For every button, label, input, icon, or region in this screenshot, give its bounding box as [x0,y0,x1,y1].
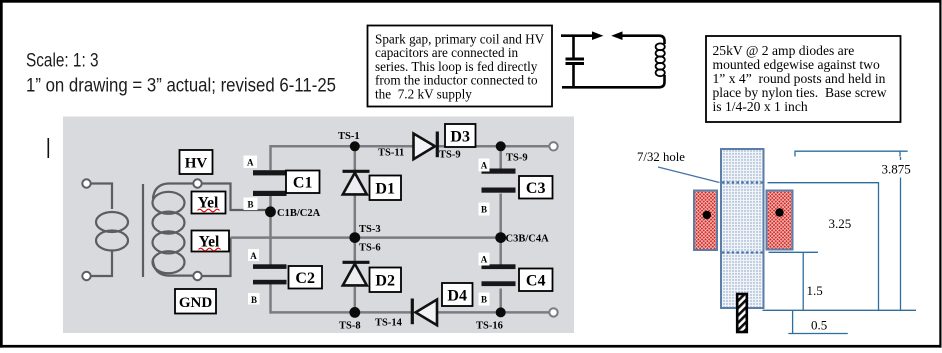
secondary winding loop 2 [153,212,185,234]
node TS-8 [349,307,360,318]
dimension 3.25 line [768,183,879,311]
spark gap electrode arrow right [611,31,622,40]
svg-text:1” x 4” round posts and held: 1” x 4” round posts and held in [713,71,886,86]
label box C2 [289,266,323,289]
top rail wire right of D3 [439,145,554,148]
svg-text:D2: D2 [375,273,395,290]
svg-text:C3B/C4A: C3B/C4A [506,234,550,245]
label box C1 [286,171,320,194]
svg-text:TS-1: TS-1 [338,131,360,142]
page frame border [0,0,942,3]
core line [142,184,144,277]
nylon tie block right [767,191,793,250]
capacitor C4 plates [482,264,516,269]
HV label box [180,150,213,174]
schematic gray panel [63,117,574,334]
label A of C2 [248,249,259,261]
svg-text:TS-6: TS-6 [359,243,381,254]
label box D2 [370,268,402,293]
primary bottom lead wire [90,250,112,276]
GND label box [175,289,216,314]
label B of C4 [479,293,490,306]
svg-text:TS-3: TS-3 [359,224,381,235]
label box C3 [519,176,553,199]
primary terminal top [82,179,90,187]
HV capacitor plates in loop [566,58,585,61]
mid rail D1/D2 segment [354,145,357,314]
note box: spark gap text [368,26,553,107]
top rail wire [271,145,414,148]
wire GND tap to mid rail [202,238,231,276]
round post body [721,149,764,308]
secondary tap HV terminal [193,179,201,187]
node TS-16 [496,307,506,317]
svg-text:D4: D4 [447,288,467,305]
svg-text:3.25: 3.25 [829,216,852,231]
label B of C2 [248,293,260,305]
svg-text:the 7.2 kV supply: the 7.2 kV supply [375,86,472,101]
diode D3 [414,132,438,160]
svg-text:place by nylon ties. Base scr: place by nylon ties. Base screw [713,85,887,100]
leader line to hole [658,167,720,183]
label box D4 [442,283,473,306]
svg-text:B: B [247,200,253,210]
dimension 0.5 line [788,310,848,333]
primary winding loop 2 [96,231,128,251]
label B of C1 [244,198,258,211]
primary top lead wire [90,184,112,210]
svg-text:D1: D1 [375,181,395,198]
svg-text:Scale: 1: 3: Scale: 1: 3 [26,51,99,72]
capacitor C3 plates [482,169,516,174]
Yel label box 1 [192,192,226,214]
svg-text:A: A [250,251,257,261]
spark gap electrode arrow left [592,31,603,40]
post dashed section line upper [722,181,763,183]
svg-text:B: B [251,295,257,305]
secondary bottom lead wire [153,260,194,276]
svg-text:HV: HV [185,156,208,172]
svg-text:B: B [481,205,487,215]
label box C4 [519,269,553,292]
node TS-1 [350,141,360,151]
svg-text:TS-9: TS-9 [439,150,461,161]
bottom rail wire [271,311,412,314]
secondary top lead wire [153,184,194,200]
diode D4 [412,299,437,326]
wire coil to bottom [562,75,665,87]
svg-text:TS-14: TS-14 [375,318,403,329]
diode D1 [343,171,370,194]
capacitor C2 plates [253,264,287,269]
wire from right arrow to corner [621,36,665,44]
post dashed section line lower [722,251,763,253]
tie hole dot left [703,211,711,219]
svg-text:C4: C4 [526,273,546,290]
svg-text:25kV @ 2 amp diodes are: 25kV @ 2 amp diodes are [713,43,855,58]
dim text 3.875 [880,160,917,178]
svg-text:1” on drawing = 3” actual; rev: 1” on drawing = 3” actual; revised 6-11-… [26,76,336,97]
dimension 3.875 line [795,151,908,310]
left rail C1 segment [269,145,272,314]
secondary tap GND terminal [193,272,201,280]
primary winding loop 1 [96,212,128,232]
diode D2 [343,262,370,285]
svg-text:TS-11: TS-11 [378,148,404,159]
label B of C3 [479,203,490,216]
Yel label box 2 [192,231,230,252]
base reference line [763,309,917,311]
output terminal top right [549,142,557,150]
label box D1 [370,176,402,201]
wire HV tap to node C1B/C2A [202,184,271,211]
wire mid horizontal TS-3 net [231,236,501,239]
svg-text:1.5: 1.5 [807,283,823,298]
label A of C4 [479,253,490,266]
tie hole dot right [775,208,783,216]
svg-text:mounted edgewise against two: mounted edgewise against two [713,57,880,72]
svg-text:C1: C1 [293,175,313,192]
secondary winding loop 4 [153,251,185,273]
label box D3 [445,124,476,147]
primary coil L1 [656,43,665,76]
nylon tie block left [694,191,717,251]
svg-text:C2: C2 [295,270,315,287]
svg-text:3.875: 3.875 [882,162,911,177]
label A of C3 [479,159,490,172]
svg-text:C1B/C2A: C1B/C2A [277,208,321,219]
node TS-3/TS-6 [349,232,360,243]
svg-text:GND: GND [179,295,213,311]
svg-text:TS-9: TS-9 [506,153,528,164]
base screw hatched [737,294,747,332]
svg-text:0.5: 0.5 [811,318,827,333]
primary terminal bottom [82,272,90,280]
secondary winding loop 1 [153,192,185,214]
svg-text:B: B [481,295,487,305]
bottom rail wire right of D4 [438,311,554,314]
svg-text:D3: D3 [450,129,470,146]
left vertical wire of loop [572,36,575,88]
right rail C3/C4 segment [499,145,502,314]
secondary winding loop 3 [153,231,185,253]
note box: diode mounting text [706,36,901,122]
svg-text:is 1/4-20 x 1 inch: is 1/4-20 x 1 inch [713,99,808,114]
output terminal bottom right [549,308,557,316]
capacitor C1 plates [253,170,287,175]
text cursor [48,138,50,158]
svg-text:TS-16: TS-16 [476,321,503,332]
svg-text:TS-8: TS-8 [339,321,361,332]
svg-text:C3: C3 [526,180,546,197]
label A of C1 [244,156,258,169]
svg-text:A: A [481,255,488,265]
svg-text:A: A [247,158,254,168]
spark gap loop: top wire [561,34,593,37]
node TS-9 [496,141,506,151]
svg-text:7/32 hole: 7/32 hole [637,150,685,164]
dimension 1.5 line [769,252,819,310]
node C1B/C2A [265,206,276,217]
svg-text:A: A [481,161,488,171]
node C3B/C4A [495,232,506,243]
